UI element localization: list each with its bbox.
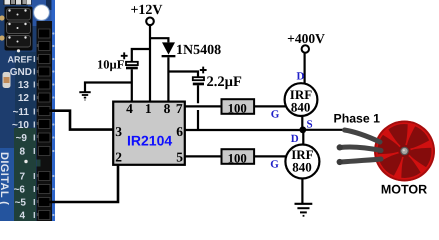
- svg-text:8: 8: [19, 147, 25, 158]
- svg-text:G: G: [270, 158, 279, 170]
- svg-text:10µF: 10µF: [97, 57, 125, 71]
- plus sign 2.2uF: [200, 67, 207, 74]
- board edge strip: [52, 0, 56, 221]
- svg-text:AREF: AREF: [8, 55, 33, 65]
- wire cap bottom to pin 4 and ground branch: [85, 83, 132, 102]
- wire from Arduino pin ~11 to IC pin 3: [43, 111, 114, 130]
- motor lead wire C: [340, 159, 381, 162]
- wire +12V down to pin 1: [149, 25, 151, 101]
- wire +400V to Q1 drain: [304, 53, 306, 84]
- svg-text:1N5408: 1N5408: [176, 43, 221, 58]
- wire Q1 source to node: [301, 116, 303, 130]
- wire pin 7 to resistor R1: [185, 105, 222, 107]
- mounting hole: [34, 5, 50, 21]
- board silkscreen pin labels: [8, 55, 33, 222]
- small led component on board left edge: [3, 72, 11, 88]
- wire node to Q2 drain: [302, 130, 304, 146]
- ICSP header metal pin tops: [4, 0, 32, 5]
- svg-text:D: D: [297, 70, 305, 82]
- svg-text:7: 7: [19, 172, 25, 183]
- svg-text:1: 1: [145, 101, 152, 116]
- svg-text:~5: ~5: [15, 198, 27, 209]
- node junction dot: [299, 126, 306, 133]
- svg-text:~11: ~11: [13, 107, 30, 118]
- svg-text:GND: GND: [10, 67, 32, 78]
- svg-text:8: 8: [164, 101, 171, 116]
- capacitor 10uF: [126, 62, 138, 83]
- ICSP 2x3 header: [0, 7, 32, 51]
- svg-text:~6: ~6: [14, 185, 26, 196]
- capacitor 2.2uF: [193, 77, 204, 131]
- wire diode line to 2.2uF: [168, 72, 198, 78]
- silk tick marks next to labels: [33, 56, 35, 218]
- transistor Q2 IRF840: [285, 145, 319, 179]
- svg-text:~9: ~9: [16, 133, 28, 144]
- svg-text:7: 7: [176, 101, 183, 116]
- motor lead wire B: [340, 147, 381, 151]
- resistor R1 100: [222, 99, 255, 114]
- wire branch to diode: [150, 38, 168, 42]
- svg-text:2.2µF: 2.2µF: [207, 74, 242, 90]
- wire pin 5 to resistor R2: [185, 155, 222, 157]
- svg-text:5: 5: [176, 150, 183, 165]
- header pin slots: [39, 29, 51, 220]
- Arduino board (left edge photo strip): [0, 0, 55, 221]
- svg-text:840: 840: [292, 159, 312, 174]
- digital female header strip: [37, 21, 53, 221]
- small contact marks on left of strip: [37, 44, 39, 216]
- ground (10uF): [79, 92, 90, 100]
- svg-text:13: 13: [18, 80, 30, 91]
- svg-text:3: 3: [115, 124, 122, 139]
- svg-text:6: 6: [176, 124, 183, 139]
- svg-text:840: 840: [291, 100, 311, 115]
- svg-text:4: 4: [19, 211, 25, 222]
- svg-text:MOTOR: MOTOR: [381, 183, 427, 197]
- wire R2 to Q2 gate: [254, 155, 287, 157]
- svg-text:D: D: [291, 133, 299, 145]
- IC pin number labels: [115, 101, 183, 165]
- wire Q2 source to ground: [301, 178, 303, 203]
- +400V terminal: [302, 45, 309, 52]
- gold pads on left: [0, 15, 5, 20]
- wire pin 6 to junction: [185, 129, 300, 131]
- svg-text:~10: ~10: [12, 120, 29, 131]
- wire R1 to Q1 gate: [254, 105, 287, 107]
- plus sign 10uF: [121, 52, 128, 59]
- svg-text:100: 100: [228, 151, 247, 165]
- silk dot near hole: [17, 49, 20, 52]
- svg-text:+400V: +400V: [287, 31, 325, 46]
- svg-text:100: 100: [228, 101, 247, 115]
- svg-text:4: 4: [126, 101, 133, 116]
- transistor Q1 IRF840: [285, 83, 318, 116]
- wire from Arduino pin ~5 to IC pin 2: [45, 165, 118, 202]
- solder dots on board edge: [52, 32, 54, 216]
- svg-text:IR2104: IR2104: [127, 133, 172, 149]
- svg-text:DIGITAL (: DIGITAL (: [0, 152, 10, 205]
- ground (Q2 source): [295, 204, 313, 216]
- diode 1N5408: [162, 42, 176, 101]
- wire node to phase: [303, 129, 346, 131]
- svg-text:2: 2: [115, 150, 122, 165]
- wire 10uF top to +12V line: [132, 49, 150, 62]
- svg-text:Phase 1: Phase 1: [334, 111, 381, 125]
- MOTOR body: [374, 121, 435, 182]
- op-amp driver IC IR2104 body: [113, 102, 185, 165]
- svg-text:12: 12: [18, 93, 30, 104]
- silk dot between 8 and 7: [24, 160, 27, 163]
- +12V terminal: [146, 18, 154, 26]
- svg-text:G: G: [271, 108, 280, 120]
- resistor R2 100: [222, 149, 255, 164]
- svg-text:+12V: +12V: [130, 3, 162, 18]
- motor lead wire A: [345, 130, 381, 142]
